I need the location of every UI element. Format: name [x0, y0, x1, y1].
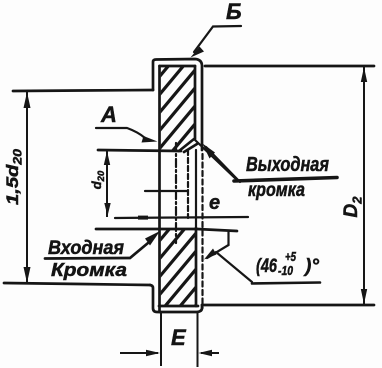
underline of angle label [252, 283, 320, 284]
underline of entrance edge label and leader [45, 243, 148, 259]
wire: left contour of hatched section [158, 66, 161, 312]
wire: exit edge bevel line 1 [179, 139, 194, 151]
wire: top hub face line (1,5d20 top reference) [13, 90, 153, 91]
angle dimension slanted leg [207, 245, 229, 258]
arrow E left [146, 350, 160, 356]
svg-text:A: A [100, 102, 117, 127]
dimension E line left part [120, 352, 158, 354]
label D2 rotated [341, 196, 365, 218]
svg-text:E: E [171, 325, 187, 350]
angle dimension stem [207, 232, 252, 282]
dimension E extension lines [120, 313, 219, 367]
wire: upper-left step outer contour of shroud band [153, 59, 202, 150]
svg-text:кромка: кромка [248, 180, 305, 201]
svg-text:Выходная: Выходная [246, 154, 329, 176]
wire: channel horizontal line in gap [145, 190, 187, 192]
svg-text:)°: )° [303, 256, 319, 277]
dimension 1,5d20 [26, 91, 28, 284]
hatching upper block [130, 28, 200, 238]
arrow of entrance edge leader [145, 231, 160, 246]
wire: upper block right edge [194, 66, 197, 139]
arrow up of d20 [104, 151, 110, 165]
wire: lower block bottom edge [159, 305, 198, 308]
wire: bottom-left step outer contour of shroud band [150, 285, 202, 312]
arrow down of D2 [361, 289, 367, 304]
leader 1 to exit edge [195, 140, 240, 182]
wire: bottom rim ledge line (D2 bottom reference) [202, 304, 374, 307]
arrow down of 1,5d20 [24, 267, 31, 283]
arrow up of D2 [361, 67, 367, 82]
wire: dashed hidden blade edge in gap [187, 150, 189, 218]
hatching lower block [130, 190, 202, 368]
wire: exit edge bevel line 2 [184, 144, 197, 152]
wire: solid vertical through gap at right of channel [195, 150, 197, 228]
underline of exit edge label [234, 178, 337, 182]
arrow up of 1,5d20 [24, 92, 31, 108]
arrow of Б leader [191, 47, 205, 58]
svg-text:Б: Б [226, 0, 242, 24]
svg-text:-10: -10 [278, 264, 293, 278]
wire: dash-dot channel center line [175, 143, 177, 243]
wire: lower block top edge with extensions (entrance edge reference) [96, 229, 237, 231]
arrow of A leader [142, 136, 158, 143]
leader 2 to exit edge [206, 147, 240, 182]
wire: bottom hub face line (1,5d20 bottom reference) [4, 283, 150, 285]
arrow of exit edge leader [203, 144, 216, 159]
small arrow on e reference line [138, 216, 148, 220]
svg-text:+5: +5 [285, 250, 297, 264]
dimension E line right part [201, 352, 219, 354]
wire: upper block top edge [160, 65, 196, 68]
wire: lower block right edge [195, 228, 198, 306]
arrow E right [199, 350, 213, 356]
svg-text:e: e [209, 192, 220, 214]
dimension D2 [363, 66, 365, 305]
svg-text:Кромка: Кромка [51, 260, 127, 280]
wire: dashed hidden edge right of section [201, 154, 203, 308]
wire: upper block bottom edge with left extension (d20 top reference) [98, 150, 181, 151]
svg-text:Входная: Входная [48, 238, 124, 259]
label 1,5d20 [4, 148, 25, 205]
wire: d20 bottom reference line with e label line [115, 217, 248, 218]
label d20 rotated [89, 170, 107, 189]
leader to angle label [216, 252, 252, 282]
arrow down of d20 [104, 203, 110, 216]
dimension d20 [106, 150, 108, 217]
arrow of angle leg [204, 249, 217, 260]
wire: top rim ledge line (D2 top reference) [205, 65, 374, 68]
svg-text:(46: (46 [256, 256, 277, 277]
